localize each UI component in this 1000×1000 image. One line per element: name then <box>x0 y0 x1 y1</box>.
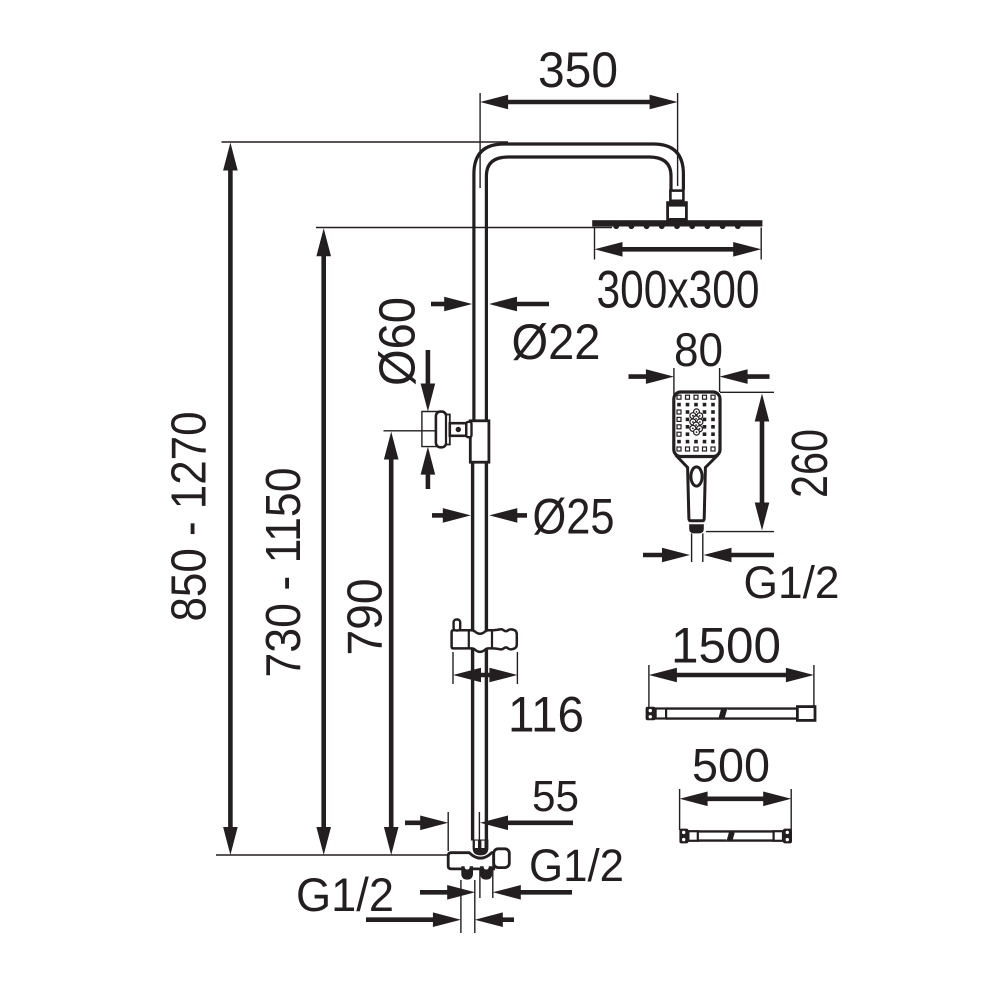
hose 500 body right segment <box>735 830 774 832</box>
hose 1500 body left segment <box>666 707 721 709</box>
dim D60 extension lines <box>421 411 438 413</box>
dim 300x300 arrow <box>595 242 623 257</box>
svg-text:300x300: 300x300 <box>597 261 760 320</box>
hand shower nozzle squares <box>677 395 715 451</box>
dim D60 upper arrow <box>421 384 436 412</box>
slider holder top nub <box>454 620 461 631</box>
dim G1/2 right inlet arrows <box>447 885 475 900</box>
union lower extension lines <box>460 880 462 933</box>
hand shower thread stub lines <box>691 533 693 562</box>
hose 500 right cap <box>783 829 792 844</box>
wall bracket inner plate <box>446 415 450 445</box>
wall bracket flange <box>436 412 446 448</box>
slider holder body <box>452 629 517 652</box>
svg-text:790: 790 <box>339 579 393 656</box>
extension line wall base <box>216 854 449 856</box>
svg-text:G1/2: G1/2 <box>529 840 624 891</box>
dim 1500 extension lines <box>648 665 650 707</box>
svg-text:116: 116 <box>508 687 584 743</box>
hand shower taper and handle <box>676 455 718 521</box>
head connector nut <box>670 191 683 201</box>
dim 350 arrow <box>480 95 508 110</box>
shower plate nozzles <box>613 223 740 229</box>
svg-text:1500: 1500 <box>671 618 781 674</box>
hand shower end nut <box>689 524 704 533</box>
hose 1500 body right segment <box>727 707 797 709</box>
wall bracket pin cap <box>466 422 471 437</box>
svg-text:G1/2: G1/2 <box>296 868 394 921</box>
wall bracket pin <box>450 423 467 436</box>
svg-text:55: 55 <box>532 772 579 821</box>
head connector flare <box>668 203 687 220</box>
dim 790 arrow <box>384 432 399 460</box>
svg-text:80: 80 <box>674 323 723 376</box>
dim 55 arrows <box>420 816 448 831</box>
svg-text:Ø22: Ø22 <box>512 314 601 370</box>
hose 500 left cap <box>679 829 688 844</box>
shower arm outer wall <box>474 144 684 422</box>
svg-text:500: 500 <box>692 739 770 792</box>
dim 500 arrow <box>680 792 708 807</box>
dim 350 extension lines <box>479 93 481 188</box>
dim 116 arrow <box>453 668 481 683</box>
dim 500 extension lines <box>679 789 681 830</box>
hose 500 left ferrule <box>688 831 697 841</box>
wall union body <box>448 853 494 869</box>
bottom pipe connector nut <box>473 840 489 856</box>
hand shower center spray circles <box>690 409 703 435</box>
dim 850-1270 arrow <box>223 143 238 171</box>
hose 500 body left segment <box>698 830 730 832</box>
hose 1500 right fitting <box>797 707 815 721</box>
shower arm inner wall <box>486 157 671 422</box>
dim 260 extension lines <box>720 391 774 393</box>
riser joint sleeve at bracket <box>470 421 489 462</box>
hose 1500 left ferrule <box>656 709 667 719</box>
extension line shower head level <box>316 227 612 229</box>
svg-text:Ø25: Ø25 <box>533 489 615 545</box>
dim 300x300 extension lines <box>594 228 596 260</box>
riser pipe lower section right wall <box>485 461 488 841</box>
dim D60 lower arrow <box>421 447 436 475</box>
svg-text:Ø60: Ø60 <box>369 297 426 386</box>
svg-text:350: 350 <box>538 42 618 98</box>
hand shower head outline <box>674 392 720 457</box>
extension line bracket level <box>384 430 437 432</box>
extension line top of arm <box>222 141 509 143</box>
hose 500 break slash <box>726 830 735 842</box>
dim 116 extension lines <box>452 652 454 684</box>
overhead shower plate 300x300 <box>592 220 762 226</box>
hand shower handle slot <box>691 467 702 486</box>
dim 80 arrows <box>646 369 674 384</box>
hose 1500 left cap <box>646 707 656 720</box>
dim 730-1150 arrow <box>316 228 331 256</box>
dim 80 extension lines <box>673 368 675 398</box>
svg-text:730 - 1150: 730 - 1150 <box>257 468 311 678</box>
svg-text:850 - 1270: 850 - 1270 <box>163 412 217 622</box>
hose 1500 break slash <box>718 707 728 719</box>
wall union right knob <box>494 849 510 868</box>
dim D22 arrows <box>444 297 472 312</box>
riser pipe lower section left wall <box>471 461 474 841</box>
dim G1/2 left inlet arrows <box>433 912 461 927</box>
svg-text:260: 260 <box>781 429 838 498</box>
svg-text:G1/2: G1/2 <box>744 557 840 608</box>
dim 1500 arrow <box>649 668 677 683</box>
slider holder section lines <box>468 631 470 648</box>
wall bracket screw dot <box>456 427 461 432</box>
hose 500 right ferrule <box>774 831 783 841</box>
wall union left inlet <box>461 866 473 879</box>
dim G1/2 hand shower arrows <box>662 548 690 563</box>
wall union right inlet <box>480 866 492 879</box>
dim 55 extension lines <box>447 812 449 851</box>
dim D25 arrows <box>443 508 471 523</box>
dim 260 arrow <box>755 394 770 422</box>
